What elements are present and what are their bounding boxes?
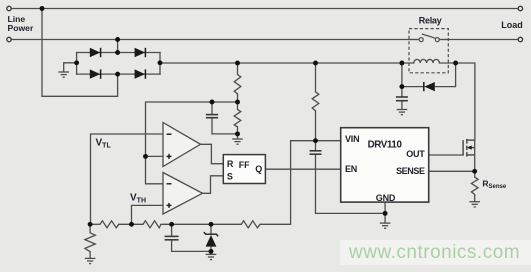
wire rectified rail <box>160 62 414 64</box>
wire freewheel diode left lead <box>402 86 424 88</box>
wire DRV110 GND stub <box>384 202 386 223</box>
wire zener bottom lead <box>210 247 212 255</box>
svg-text:DRV110: DRV110 <box>368 139 403 150</box>
terminal line power top <box>7 6 11 10</box>
wire top rail down to bridge AC bottom node <box>42 9 118 97</box>
node top rail tap <box>40 6 45 11</box>
capacitor C2 divider tap <box>206 115 218 118</box>
node cap C2 top <box>210 100 215 105</box>
wire top line power to load <box>11 8 518 10</box>
node zener anode <box>209 249 214 254</box>
node line2 tap <box>115 37 120 42</box>
wire VTH node <box>132 205 164 224</box>
wire DRV110 SENSE to Rsense <box>429 170 475 172</box>
ground below divider <box>232 139 243 144</box>
wire rail Ra to Rb <box>119 223 143 225</box>
node rail vin resistor <box>313 61 318 66</box>
node rail coil left <box>399 61 404 66</box>
svg-text:Load: Load <box>501 20 523 30</box>
svg-text:Power: Power <box>8 23 34 33</box>
terminal load top <box>518 6 522 10</box>
wire zener top lead <box>210 224 212 234</box>
node bridge minus <box>74 60 79 65</box>
node cap C4 tap <box>169 222 174 227</box>
diode bridge D3 bottom-left <box>90 69 101 78</box>
diode bridge D4 bottom-right <box>135 69 146 78</box>
wire coil right to mosfet drain <box>439 63 475 140</box>
comparator U3 bottom <box>163 173 203 215</box>
wire bridge right vertical <box>159 53 161 75</box>
svg-text:VIN: VIN <box>345 134 359 144</box>
ground below Rsense <box>469 202 480 207</box>
wire Rsense top lead <box>474 171 476 177</box>
wire left reference resistor to ground <box>89 224 91 233</box>
wire Rsense bottom lead <box>474 195 476 201</box>
ground below DRV110 GND <box>380 223 391 228</box>
wire VIN cap top lead <box>315 141 317 151</box>
mosfet Q1 <box>463 139 475 157</box>
wire comp1 output to FF R <box>201 144 224 163</box>
svg-text:GND: GND <box>376 193 396 203</box>
wire zener cap C4 bottom to zener anode <box>172 240 211 252</box>
svg-text:Q: Q <box>255 164 262 174</box>
svg-text:R: R <box>227 159 234 169</box>
resistor Rb horizontal <box>143 221 161 228</box>
wire bridge bottom row <box>77 73 160 75</box>
svg-text:www.cntronics.com: www.cntronics.com <box>348 242 520 263</box>
wire zener cap C4 top lead <box>171 224 173 236</box>
flip-flop U4 <box>223 155 265 184</box>
wire relay cap top lead <box>401 87 403 97</box>
wire left reference resistor lower lead <box>89 252 91 259</box>
wire DRV110 OUT to gate <box>429 154 463 156</box>
relay switch <box>409 34 448 42</box>
wire reference rail bottom <box>90 223 100 225</box>
diode bridge D1 top-left <box>90 48 101 57</box>
mosfet body arrow <box>467 145 472 149</box>
wire freewheel diode right lead up to coil right node <box>435 63 456 87</box>
ground below zener <box>206 254 217 259</box>
resistor Rc horizontal <box>241 221 260 228</box>
label Line Power <box>8 14 34 33</box>
node zener top <box>209 222 214 227</box>
resistor Rsense body <box>471 177 478 195</box>
wire relay coil left node down to freewheel diode <box>401 63 403 87</box>
node DRV110 gnd <box>383 211 388 216</box>
node VIN <box>313 138 318 143</box>
ground below left reference resistor <box>85 258 96 263</box>
wire line 2 down to bridge AC top node <box>117 40 119 53</box>
wire VTL node <box>91 134 164 224</box>
relay coil <box>414 59 440 63</box>
wire FF Q to DRV110 EN <box>265 168 340 170</box>
node comp plus tap <box>143 154 148 159</box>
wire relay switch to load <box>439 39 518 41</box>
node divider foot <box>235 131 240 136</box>
zener diode reference <box>204 232 218 247</box>
wire bridge left node to ground <box>64 63 77 72</box>
wire VIN resistor top lead <box>315 63 317 92</box>
diode bridge D2 top-right <box>135 48 146 57</box>
wire bridge left vertical <box>76 53 78 75</box>
watermark www.cntronics.com <box>340 240 531 265</box>
wire rail Rb to Rc <box>161 223 241 225</box>
wire divider top lead <box>237 63 239 75</box>
comparator U2 top <box>163 123 201 167</box>
capacitor C1 relay node <box>396 97 408 101</box>
node bridge AC top <box>115 50 120 55</box>
wire divider tap to comparators <box>146 102 238 184</box>
wire VIN resistor bottom lead <box>315 111 317 141</box>
wire bridge top row <box>77 52 160 54</box>
wire divider bottom lead <box>237 127 239 139</box>
wire cap C2 top lead <box>211 102 213 114</box>
resistor divider bottom R at x=237.5 <box>234 109 241 127</box>
freewheel diode relay <box>424 82 435 91</box>
node bridge plus <box>158 60 163 65</box>
resistor divider top R at x=237.5 <box>234 75 241 96</box>
ground below relay cap <box>397 110 408 115</box>
node rail divider <box>235 61 240 66</box>
wire VIN cap to GND rail <box>316 155 386 214</box>
wire line power 2 to relay switch <box>11 39 419 41</box>
wire VIN node to DRV110 <box>316 140 341 142</box>
svg-text:EN: EN <box>345 164 357 174</box>
ground at bridge left node <box>58 72 69 77</box>
svg-text:OUT: OUT <box>406 149 425 159</box>
wire comparator plus junction <box>146 155 164 157</box>
node freewheel left <box>399 84 404 89</box>
node divider tap <box>235 100 240 105</box>
node reference rail left <box>88 222 93 227</box>
wire cap C2 bottom to divider foot <box>212 118 238 134</box>
resistor reference to ground at x=90 <box>85 233 95 252</box>
svg-text:FF: FF <box>239 160 250 170</box>
capacitor C4 reference <box>165 236 179 239</box>
terminal load bottom <box>518 37 522 41</box>
node VTH tap <box>129 222 134 227</box>
DRV110 U1 <box>341 128 429 203</box>
capacitor C3 VIN <box>310 151 322 154</box>
node bridge AC bottom <box>115 72 120 77</box>
resistor Ra horizontal <box>100 221 119 228</box>
relay dashed box <box>409 29 448 73</box>
wire divider tap segment <box>237 95 239 109</box>
terminal line power bottom <box>7 37 11 41</box>
wire rail Rc to VIN riser <box>260 141 315 225</box>
svg-text:SENSE: SENSE <box>396 166 425 176</box>
svg-text:S: S <box>227 171 233 181</box>
wire comp2 output to FF S <box>203 176 224 194</box>
node sense <box>472 169 477 174</box>
node coil right <box>453 61 458 66</box>
wire relay cap to ground <box>401 101 403 109</box>
svg-text:Relay: Relay <box>419 15 442 25</box>
resistor VIN feed at x=315.5 <box>312 92 319 111</box>
wire mosfet source down to sense node <box>474 140 476 171</box>
